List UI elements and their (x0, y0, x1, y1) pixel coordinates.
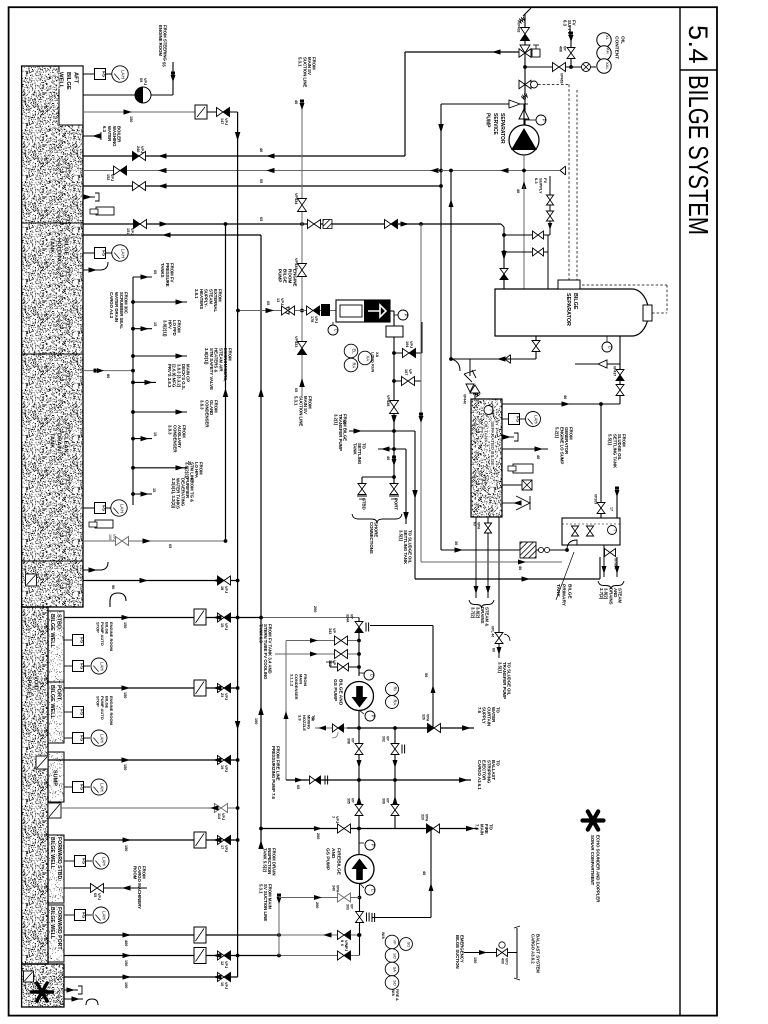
siphon hook clean drain y598 (110, 593, 126, 607)
arrow y541 (143, 538, 152, 543)
sounding pipe separated tank (513, 464, 533, 473)
LAH port well (91, 730, 107, 746)
instrument C engine pump (332, 322, 334, 325)
svg-text:XL: XL (605, 35, 610, 41)
ballast stripping header y780 (286, 779, 471, 781)
echo sounder asterisk (583, 818, 604, 822)
svg-text:LAH: LAH (100, 662, 105, 671)
port shore hose connection (393, 477, 395, 483)
recirc wire y917.5 (372, 917, 431, 919)
wire from bilge transfer pump y431 (349, 430, 415, 432)
svg-text:XAL: XAL (605, 62, 610, 70)
discharge funnel assembly left of tank (469, 359, 471, 376)
fv supply branch y67 (525, 66, 580, 68)
arrow to ballast stripping ejector (459, 777, 468, 783)
svg-text:FS: FS (79, 709, 84, 715)
valve VP363 y654 (335, 650, 342, 659)
wire to settling tank y449 (378, 448, 406, 450)
svg-text:150: 150 (124, 845, 128, 851)
title box 5.4 divider (680, 69, 717, 71)
junction y580.5 trunk x237.6 (236, 579, 240, 583)
svg-text:15: 15 (152, 488, 156, 492)
source arrow x302 bottom (299, 378, 305, 387)
arrows on y186 (158, 183, 167, 188)
small sluice box in band (26, 574, 37, 586)
ladder branch y302 (131, 300, 135, 304)
valve VPH63 (484, 523, 491, 528)
valve VPJ12 y955.5 (218, 951, 225, 960)
arrow left on y156 (158, 153, 167, 158)
junction y186 x441 (439, 184, 443, 188)
valve VP303 x359.5 with flange (356, 912, 364, 918)
svg-text:RA: RA (393, 699, 398, 705)
LAH sump (91, 779, 107, 795)
valve VPJ147 on y112 (207, 111, 238, 113)
motor valve emergency suction (497, 949, 503, 957)
svg-text:P: P (371, 715, 376, 718)
svg-text:150: 150 (124, 960, 128, 966)
riser x525 relief and control valves (524, 14, 526, 125)
wire to sludge oil settling x406 (405, 449, 407, 524)
valve y955.5 right (338, 951, 345, 960)
valve VPJ19 y760 (218, 756, 225, 765)
svg-text:17: 17 (609, 507, 613, 511)
arrow up trunk x261 b (258, 706, 264, 715)
LAH separated tank (526, 412, 541, 427)
source arrow trunk x261 bottom (258, 840, 264, 849)
svg-text:15: 15 (153, 322, 157, 326)
svg-text:65: 65 (259, 217, 263, 221)
arrow down x394 (391, 415, 397, 424)
svg-text:FS: FS (81, 912, 86, 918)
ladder branch y467.8 (131, 466, 135, 470)
valve y780 with flange (310, 776, 316, 784)
source arrow x302 top (300, 103, 305, 110)
instrument P fire bilge pump (359, 842, 364, 844)
vent stub separated tank (502, 436, 514, 438)
svg-text:40: 40 (386, 456, 390, 460)
valve VP302 x395 with tee (391, 744, 399, 750)
wire y760 sump suction (48, 759, 238, 761)
valve VP434 on x302 (298, 199, 307, 206)
svg-text:SO: SO (393, 980, 398, 986)
pump discharge wire to y728 (358, 710, 360, 728)
valve VP438 on x394 (390, 401, 399, 408)
arrow up trunk x261 a (258, 388, 264, 397)
svg-text:FS: FS (79, 784, 84, 790)
valve VP203 on x601 (597, 503, 605, 509)
wire y617.5 stbd well suction (64, 617, 261, 619)
valve VP308 x359 (355, 744, 363, 750)
LAH holding tank (112, 245, 128, 261)
wire x601 from y404 to heater (599, 402, 603, 406)
junction x302 y310.5 (300, 309, 304, 313)
wire y170.5 gray extension to pump and funnel (441, 170, 524, 172)
valve VPC310 on mixing wire (333, 724, 339, 732)
junction x359 y828.5 (357, 827, 361, 831)
branch y353 relief (392, 351, 396, 355)
svg-text:VP440: VP440 (462, 394, 466, 404)
svg-text:VPJ147: VPJ147 (220, 118, 228, 125)
vent tick top riser (525, 8, 531, 14)
svg-text:P: P (371, 844, 376, 847)
drain funnel on y359 (505, 355, 511, 364)
arrow on y224 (160, 221, 169, 226)
arrow down x359 (357, 760, 362, 768)
svg-text:C: C (370, 674, 375, 677)
arrow y310.5 (266, 308, 275, 313)
svg-text:C: C (334, 329, 339, 332)
arrow on y112 (124, 109, 133, 114)
svg-text:80: 80 (491, 648, 495, 652)
separator drain wire y359 (451, 358, 536, 360)
separator service pump drain funnel (560, 166, 566, 175)
svg-text:XA: XA (366, 355, 371, 361)
open check valve y364 (598, 360, 607, 368)
svg-text:P: P (542, 119, 547, 122)
svg-text:40: 40 (516, 189, 520, 193)
branch y381 to clean drain (392, 379, 396, 383)
small valves right of strainer (536, 549, 567, 551)
silencer black box engine pump inlet (321, 304, 330, 316)
fire bilge pump suction from y828.5 (358, 829, 360, 856)
fire bilge and gs pump circle (345, 855, 374, 884)
svg-text:RA: RA (352, 362, 357, 368)
svg-text:VPJ400: VPJ400 (500, 958, 508, 965)
wire x415 down from y431 (414, 431, 416, 579)
divider aft/holding tank (22, 222, 83, 224)
check and valve on separator inlet (500, 269, 508, 275)
svg-text:LAH: LAH (534, 415, 539, 424)
wire boiler washing water stub (83, 135, 101, 137)
three way valve with actuator (519, 49, 525, 57)
strainer box on y224 (323, 220, 332, 229)
svg-text:65: 65 (168, 544, 172, 548)
svg-text:SO: SO (393, 953, 398, 959)
vent hook holding tank (83, 269, 100, 271)
ladder branch y494 (131, 492, 135, 496)
valve VP305 x359 (355, 805, 363, 811)
valve VPH320 y828.5 (427, 824, 434, 833)
vent hook echo compartment (64, 989, 78, 991)
wire steering drain to scupper circle (83, 94, 135, 96)
FS stbd well lower (64, 665, 72, 667)
dashed control pair to separator nozzle (568, 85, 570, 281)
recirc wire x431 down (430, 829, 432, 918)
valve on y186 (133, 182, 140, 191)
ladder branch y412 (131, 410, 135, 414)
svg-text:PORT: PORT (394, 498, 399, 510)
gray segment y617.5 to pump suction (261, 617, 359, 619)
discharge header y728 (347, 727, 474, 729)
svg-text:VPJ114: VPJ114 (217, 813, 225, 820)
wire x451 from y170 to separator drain (450, 171, 452, 360)
gray wire y935 right part (279, 934, 359, 936)
wire y52 top (405, 51, 522, 53)
svg-text:FS: FS (101, 505, 106, 511)
junction y617.5 x237.6 x261 (236, 616, 240, 620)
junction y550 x567 hook to heater (565, 548, 569, 552)
junction riser y67 (523, 65, 527, 69)
svg-text:200: 200 (313, 606, 317, 612)
echo sounder compartment sluice box (24, 971, 34, 982)
svg-text:VPL 40: VPL 40 (490, 626, 494, 637)
svg-text:LAH: LAH (102, 857, 107, 866)
echo sounder compartment box (22, 964, 64, 1007)
gray wire y897.5 from main sv suction (279, 897, 360, 899)
junction y955.5 x279 (277, 954, 281, 958)
svg-text:FS: FS (79, 637, 84, 643)
arrow y562 (518, 560, 526, 565)
wire x395 y728 to y829 (394, 728, 396, 829)
wire y840 forward suction header (64, 839, 238, 841)
fire main header y828.5 (261, 828, 478, 830)
emergency bilge suction wire (464, 952, 517, 954)
FS forward port well (64, 914, 74, 916)
svg-text:SUMP: SUMP (52, 770, 58, 786)
label 90 on y580.5 (140, 578, 149, 583)
hull tank band (aft section) with stipple (22, 66, 83, 607)
FS clean drain tank (83, 507, 94, 509)
wire suction y186 (83, 185, 441, 187)
dashed control from side nozzle (652, 312, 667, 314)
open check on y310 stub (281, 307, 289, 314)
instrument C bilge gs pump (359, 672, 364, 674)
svg-text:150: 150 (473, 957, 477, 963)
svg-text:LAH: LAH (120, 504, 125, 513)
fv flush line y252 (504, 251, 548, 253)
bypass loop y625.5 to x433 (370, 625, 433, 627)
junction y224 x302 (300, 222, 304, 226)
valve VPJ7 y828.5 (338, 824, 345, 833)
relief return wire x422 (421, 322, 423, 353)
arrow to water curtain (462, 725, 471, 731)
svg-text:T: T (613, 529, 618, 532)
arrow down trunk x237.6 top (235, 132, 241, 141)
svg-text:FS: FS (515, 416, 520, 422)
bilge separator top nozzle box (558, 280, 580, 289)
check valve open above pump (519, 109, 529, 119)
junction y808 (236, 806, 240, 810)
svg-text:AH: AH (606, 48, 611, 54)
wire engine pump discharge down x394 (393, 337, 395, 483)
brace shore connections (352, 514, 402, 523)
valve VPJ152 on y170.5 (114, 166, 121, 175)
ballast system connection bar (516, 928, 518, 978)
engine pump discharge wire (390, 310, 394, 312)
valve VP309 x395 (391, 805, 399, 811)
mud box y840 (194, 832, 206, 848)
wire x548 to separator top (547, 235, 549, 289)
fv supply chain from funnel (549, 176, 551, 235)
mud box y955.5 (194, 948, 206, 964)
asterisk in echo sounder compartment (32, 990, 53, 993)
hatched strainer box on y550 (520, 542, 536, 558)
FS stbd well upper (64, 639, 72, 641)
divider clean drain tank bottom (22, 560, 83, 562)
gray trunk x279 from main sv suction (278, 898, 280, 956)
trunk main suction x237.6 (237, 112, 239, 977)
svg-text:FS: FS (101, 71, 106, 77)
ladder top stub from fv pressure tanks (133, 276, 152, 278)
valve VPJ114 y808 (215, 804, 222, 813)
svg-text:FS: FS (101, 250, 106, 256)
engine pump run indicator circles EL RA XA (344, 344, 358, 358)
ladder branch y356 (131, 354, 135, 358)
LAH forward port well (93, 907, 109, 923)
arrow down x395 (393, 760, 398, 768)
wire y955.5 forward port suction (64, 955, 279, 957)
FS holding tank (83, 252, 94, 254)
junction x261 y828.5 (259, 827, 263, 831)
svg-text:FS: FS (79, 735, 84, 741)
pump suction wire to junction y170.5 (523, 155, 525, 186)
tank vent check top (474, 385, 476, 399)
wire from generator engine lo sump (502, 448, 548, 450)
junction y224 x421 (419, 222, 423, 226)
valve VPH340 y897.5 (338, 893, 345, 902)
arrows on y170.5 (158, 168, 167, 173)
LAH clean drain tank (111, 500, 127, 516)
svg-text:EL: EL (352, 348, 357, 354)
junctions fv feeds (357, 639, 361, 643)
svg-text:FROM STEERINGENGINE ROOM: FROM STEERINGENGINE ROOM (158, 25, 168, 61)
wire engine pump suction y310.5 gray (238, 310, 336, 312)
brace steam drains left (469, 600, 494, 608)
instrument C separator (606, 336, 608, 342)
svg-text:VP437: VP437 (612, 366, 616, 376)
svg-text:65: 65 (294, 388, 298, 392)
valve with black on y224 far right (385, 220, 392, 229)
deck scupper circle half black VPJ 69 (135, 87, 151, 103)
arrow up x433 (431, 685, 436, 693)
svg-text:65: 65 (266, 301, 270, 305)
svg-text:LAH: LAH (121, 249, 126, 258)
valve y935 right (338, 931, 345, 940)
sump box (48, 752, 64, 802)
svg-text:40: 40 (422, 871, 426, 875)
junction y760 (236, 758, 240, 762)
svg-text:VPJ178: VPJ178 (310, 316, 318, 323)
valve VP463 on y67 (553, 63, 560, 72)
sample connection circle-x (580, 66, 596, 68)
forward stbd bilge well box (48, 835, 64, 903)
svg-text:FROM DRAININSPECTIONTANK 5.5(2: FROM DRAININSPECTIONTANK 5.5(2) (262, 848, 276, 875)
junction x394 y449 (392, 447, 396, 451)
wire y370.6 gray from holding tank (83, 370, 133, 372)
junction y955.5 x237.6 (236, 954, 240, 958)
sump sluice box lower (48, 803, 61, 818)
svg-text:80: 80 (106, 374, 110, 378)
valve on y224 right of trunk (308, 220, 315, 229)
mud box y935 (194, 927, 206, 943)
wire x405 elbow (404, 52, 406, 156)
junction x395 y728 (393, 726, 397, 730)
divider holding/clean drain tank (22, 353, 83, 355)
svg-text:200: 200 (315, 902, 319, 908)
angle relief valve above pump (509, 100, 520, 108)
svg-text:55: 55 (162, 62, 167, 67)
arrow up x359 bottom (357, 796, 362, 804)
wire y935 forward stbd suction (64, 934, 279, 936)
wire x444 elbow down (440, 104, 442, 171)
junction y935 (277, 933, 281, 937)
separator oil outlet x620 (619, 336, 621, 404)
svg-text:LAH: LAH (100, 783, 105, 792)
relief valve with spring VP402 (521, 28, 530, 35)
fire bilge pump suction wire (359, 883, 361, 935)
valve VP435 on x302 (298, 264, 307, 271)
svg-text:LAH: LAH (121, 70, 126, 79)
svg-text:VPJ151: VPJ151 (126, 228, 134, 235)
label bilge primary tank with leader (556, 552, 574, 600)
gray trunk x286 fire line pressurizing (285, 641, 287, 781)
svg-text:FS: FS (79, 663, 84, 669)
wire y580.5 suction (83, 580, 238, 582)
gray wire y808 sump suction 2 (61, 807, 238, 809)
overflow funnel separated tank (502, 502, 516, 504)
vent stub aft tank y197 (83, 196, 95, 198)
svg-text:C: C (608, 346, 613, 349)
vent hook clean drain tank (83, 569, 100, 571)
svg-text:150: 150 (129, 116, 133, 122)
svg-text:65: 65 (296, 785, 300, 789)
FS port well lower (64, 737, 72, 739)
wire from sludge oil settling x617 (616, 490, 618, 518)
svg-text:SA: SA (393, 967, 398, 973)
FS flow switch aft bilge well (83, 73, 94, 75)
wire suction y170.5 gray (83, 170, 444, 172)
svg-text:VPJ240: VPJ240 (136, 146, 144, 153)
arrows down tank drains (474, 586, 479, 594)
valve VPJ13 on y310.5 (282, 306, 289, 315)
svg-text:VPJ168: VPJ168 (108, 534, 116, 541)
trunk x225.5 (225, 224, 227, 541)
spectacle box on y112 (195, 105, 207, 119)
wire y541 gray clean drain suction (83, 540, 226, 542)
svg-text:40: 40 (536, 455, 540, 459)
wire x359 y728 to y780 (358, 728, 360, 830)
to mixing nozzle wire gray (315, 727, 347, 729)
tank bottom drains x476 x488 x499 (475, 517, 477, 598)
dashed control line to separator (538, 84, 569, 86)
wire suction y156 (83, 155, 405, 157)
svg-text:65: 65 (153, 270, 157, 274)
svg-text:50: 50 (424, 673, 428, 677)
wire FS to LAH aft (106, 73, 112, 75)
LAH level alarm aft bilge well (112, 66, 128, 82)
valve VPJ17 y840 (218, 836, 225, 845)
svg-text:90: 90 (111, 585, 115, 589)
wire x359.5 down to y955.5 (359, 935, 361, 956)
valve VPJ65 y888 (91, 884, 98, 893)
title block divider (679, 7, 681, 1015)
valve VP324A with flange top x359 (355, 622, 363, 628)
svg-text:VP203: VP203 (593, 494, 597, 504)
svg-text:40: 40 (259, 148, 263, 152)
valve VPH326 y728 (428, 724, 435, 733)
valve VP466 fv supply (567, 48, 575, 54)
bilge gs pump suction trunk x359 (358, 618, 360, 677)
svg-text:LAH: LAH (100, 734, 105, 743)
svg-text:VP434: VP434 (294, 193, 298, 205)
port bilge well box (48, 682, 64, 743)
FS separated tank (502, 418, 508, 420)
mud box y617.5 (194, 609, 206, 625)
aft bilge well label box (59, 66, 83, 125)
svg-text:VP463: VP463 (559, 73, 563, 84)
heater drains x604 x617 (603, 545, 605, 577)
